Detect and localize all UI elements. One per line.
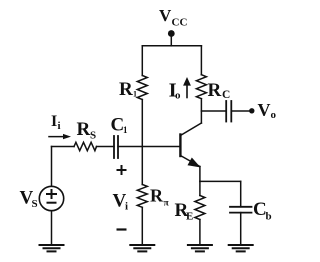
label RS (77, 119, 97, 142)
wire Rpi bottom lead (141, 208, 143, 246)
label Vo (258, 100, 277, 121)
capacitor Cb (230, 207, 252, 213)
svg-text:S: S (32, 198, 38, 210)
wire RC bottom to collector (200, 99, 202, 123)
label Vs (20, 188, 38, 211)
svg-text:b: b (266, 211, 272, 223)
wire Cb bottom lead (240, 213, 242, 245)
label Rpi (150, 186, 170, 209)
label RC (208, 80, 231, 101)
transistor Q1 emitter diagonal (180, 156, 200, 167)
wire collector node to output cap (201, 110, 226, 112)
svg-text:V: V (159, 6, 172, 25)
svg-text:C: C (222, 89, 230, 101)
wire Vs top lead (51, 147, 53, 187)
label Io (169, 79, 181, 101)
wire Cb top lead (240, 181, 242, 206)
source Vs plus (47, 190, 56, 198)
label Ii (51, 113, 61, 132)
wire RE bottom lead (199, 220, 201, 246)
transistor Q1 base bar (179, 135, 181, 157)
ground under Cb (229, 245, 253, 251)
arrow Ii current (49, 136, 64, 138)
svg-text:i: i (58, 120, 61, 132)
svg-text:R: R (77, 119, 91, 140)
label Vi plus (117, 165, 127, 175)
wire C1 to base (118, 146, 180, 148)
label RE (175, 200, 194, 223)
svg-text:R: R (119, 79, 133, 100)
resistor Rpi (137, 185, 147, 208)
capacitor C2 output coupling (226, 101, 231, 122)
svg-text:R: R (208, 80, 222, 101)
wire Vs bottom lead (51, 211, 53, 245)
svg-text:1: 1 (133, 90, 137, 99)
arrow Io current (186, 85, 188, 98)
svg-text:S: S (90, 130, 96, 142)
source Vs minus (48, 202, 56, 204)
ground under Rpi (130, 245, 154, 251)
wire RC top lead (200, 46, 202, 75)
wire cap to Vo (231, 110, 249, 112)
wire emitter node to Cb (200, 180, 241, 182)
label R1 (119, 79, 137, 100)
svg-text:V: V (258, 100, 271, 120)
svg-text:π: π (164, 199, 170, 209)
resistor RS (74, 142, 97, 150)
wire RE top lead (199, 181, 201, 195)
wire base node down to Rpi (141, 147, 143, 185)
label C1 (111, 115, 129, 136)
resistor RE (195, 196, 205, 220)
svg-text:i: i (125, 201, 128, 213)
svg-text:CC: CC (172, 17, 188, 29)
svg-text:o: o (175, 90, 181, 102)
svg-text:I: I (51, 113, 57, 130)
node Vo dot (249, 108, 254, 113)
label Vi (113, 191, 129, 213)
svg-text:1: 1 (123, 125, 128, 135)
wire R1 bottom lead to base node (141, 100, 143, 147)
capacitor C1 (114, 136, 118, 158)
resistor RC (196, 75, 206, 99)
wire Vcc stem (170, 34, 172, 46)
node Vcc dot (168, 30, 175, 37)
resistor R1 (137, 76, 147, 100)
wire input from Vs to C1 (52, 146, 75, 148)
label Vcc (159, 6, 187, 29)
svg-text:E: E (186, 211, 193, 223)
label Vi minus (117, 228, 127, 230)
wire top supply rail (142, 45, 201, 47)
transistor Q1 emitter arrowhead (188, 158, 199, 167)
ground under RE (188, 245, 212, 251)
label Cb (253, 199, 272, 223)
svg-text:o: o (271, 109, 277, 121)
source Vs circle (39, 186, 63, 210)
transistor Q1 collector diagonal (180, 123, 201, 136)
wire RS to C1 (97, 146, 115, 148)
wire emitter down to node (199, 167, 201, 182)
wire R1 top lead (141, 46, 143, 76)
ground under Vs (40, 245, 64, 251)
svg-text:R: R (150, 186, 164, 206)
